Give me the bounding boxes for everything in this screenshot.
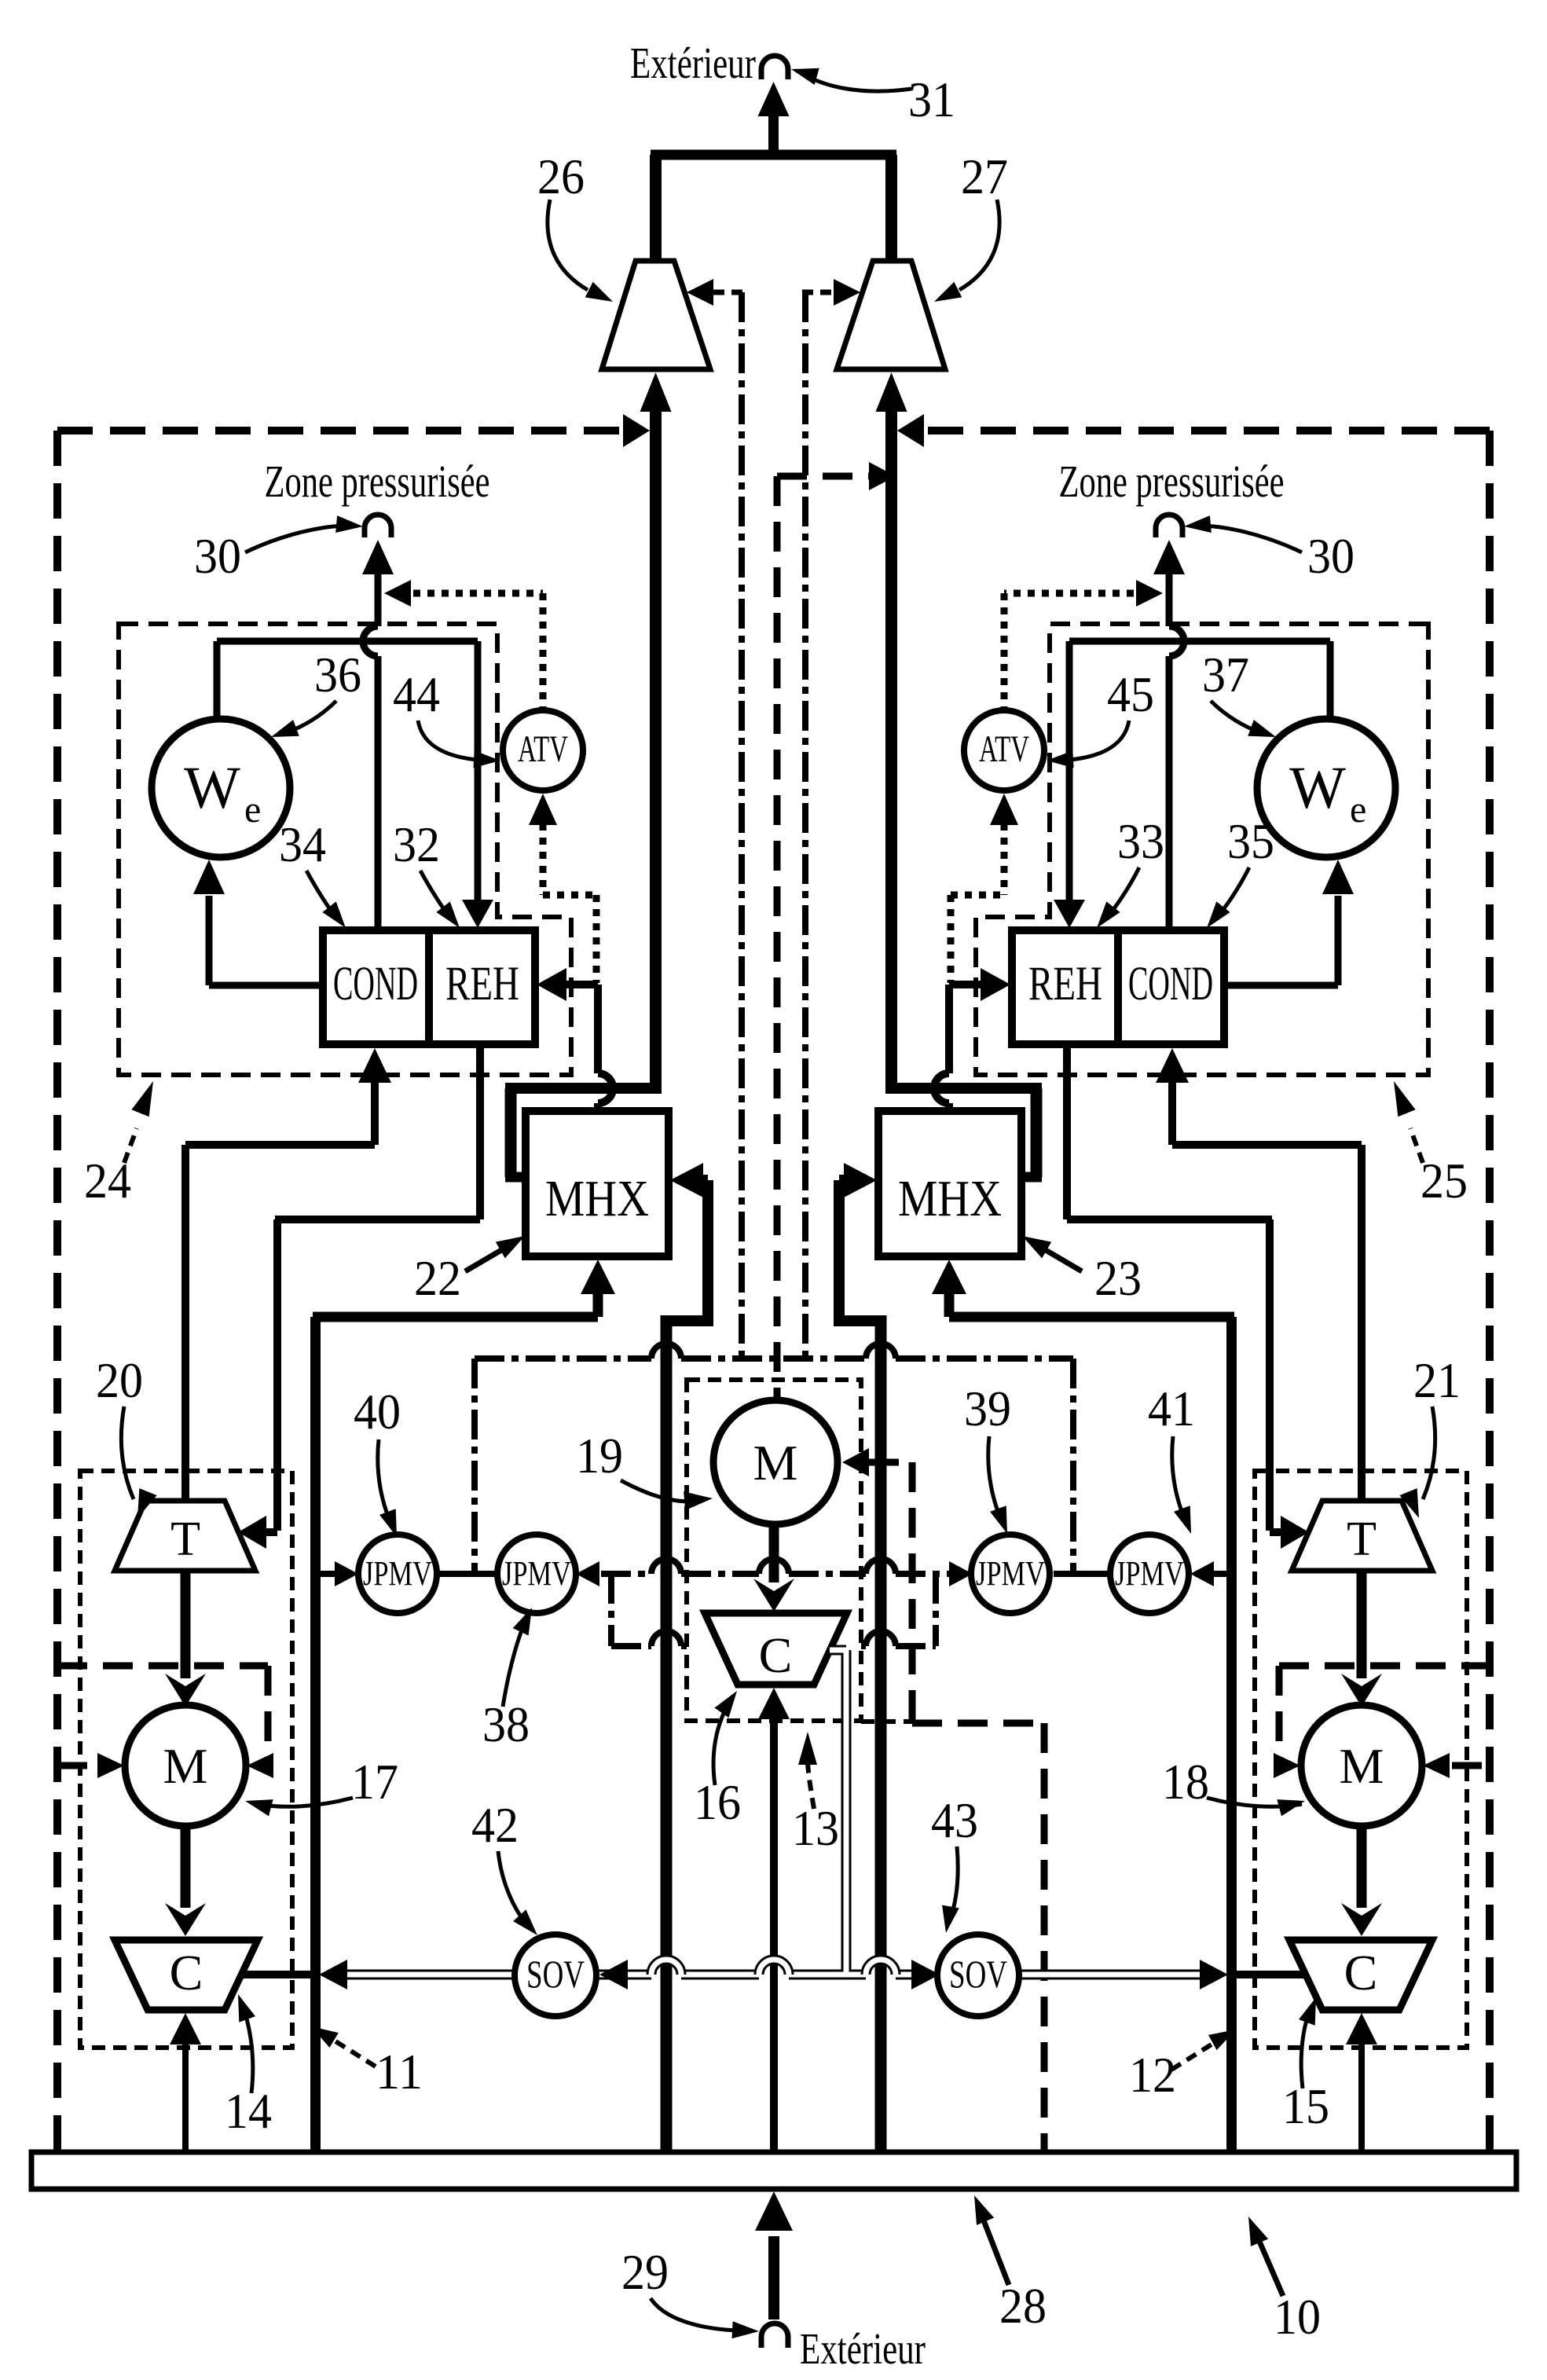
svg-text:33: 33 (1117, 813, 1164, 869)
svg-text:42: 42 (471, 1797, 519, 1853)
svg-text:23: 23 (1094, 1250, 1142, 1306)
svg-text:44: 44 (393, 666, 440, 722)
svg-text:19: 19 (576, 1428, 623, 1483)
svg-text:31: 31 (908, 72, 955, 127)
svg-text:ATV: ATV (979, 728, 1029, 770)
svg-text:11: 11 (376, 2044, 423, 2099)
svg-text:SOV: SOV (949, 1952, 1007, 1996)
svg-text:REH: REH (1028, 958, 1102, 1010)
svg-text:SOV: SOV (526, 1952, 585, 1996)
svg-text:W: W (184, 755, 240, 821)
svg-text:M: M (753, 1435, 798, 1491)
svg-text:25: 25 (1421, 1153, 1468, 1208)
svg-text:34: 34 (279, 816, 326, 872)
svg-text:15: 15 (1282, 2078, 1329, 2134)
svg-text:20: 20 (96, 1352, 143, 1408)
svg-text:14: 14 (225, 2083, 272, 2139)
svg-text:40: 40 (354, 1384, 401, 1439)
svg-text:21: 21 (1413, 1352, 1461, 1408)
svg-text:JPMV: JPMV (976, 1554, 1045, 1593)
svg-text:Zone pressurisée: Zone pressurisée (265, 456, 490, 507)
svg-text:C: C (759, 1627, 793, 1683)
svg-text:35: 35 (1227, 813, 1274, 869)
svg-text:T: T (170, 1513, 200, 1566)
svg-text:27: 27 (961, 149, 1008, 204)
svg-text:45: 45 (1107, 666, 1154, 722)
svg-text:38: 38 (482, 1696, 530, 1752)
svg-text:C: C (170, 1945, 203, 2000)
svg-text:W: W (1289, 755, 1346, 821)
svg-text:REH: REH (445, 958, 519, 1010)
svg-text:36: 36 (314, 647, 361, 702)
svg-text:M: M (1340, 1738, 1384, 1794)
svg-text:10: 10 (1274, 2289, 1321, 2345)
svg-text:17: 17 (351, 1754, 398, 1810)
svg-text:41: 41 (1148, 1381, 1195, 1436)
svg-text:ATV: ATV (518, 728, 568, 770)
svg-text:39: 39 (964, 1381, 1011, 1436)
svg-text:e: e (1350, 789, 1366, 831)
svg-text:43: 43 (931, 1792, 978, 1848)
svg-text:28: 28 (999, 2278, 1047, 2334)
svg-text:C: C (1344, 1945, 1378, 2000)
svg-text:COND: COND (333, 958, 418, 1010)
svg-text:M: M (163, 1738, 208, 1794)
svg-text:37: 37 (1202, 647, 1249, 702)
svg-text:MHX: MHX (898, 1170, 1002, 1227)
svg-text:32: 32 (393, 816, 440, 872)
svg-text:T: T (1347, 1513, 1377, 1566)
svg-text:12: 12 (1129, 2047, 1176, 2103)
svg-text:JPMV: JPMV (502, 1554, 571, 1593)
svg-text:MHX: MHX (545, 1170, 649, 1227)
svg-text:Zone pressurisée: Zone pressurisée (1059, 456, 1285, 507)
svg-text:22: 22 (414, 1250, 461, 1306)
svg-text:30: 30 (194, 528, 241, 584)
svg-text:JPMV: JPMV (1115, 1554, 1184, 1593)
svg-text:COND: COND (1128, 958, 1213, 1010)
svg-text:16: 16 (694, 1774, 741, 1830)
svg-text:26: 26 (537, 149, 585, 204)
svg-text:JPMV: JPMV (363, 1554, 432, 1593)
svg-text:29: 29 (621, 2244, 669, 2300)
svg-text:e: e (244, 789, 261, 831)
svg-text:Extérieur: Extérieur (630, 39, 756, 88)
svg-text:30: 30 (1307, 528, 1355, 584)
svg-text:Extérieur: Extérieur (800, 2325, 926, 2374)
svg-text:18: 18 (1162, 1754, 1209, 1810)
